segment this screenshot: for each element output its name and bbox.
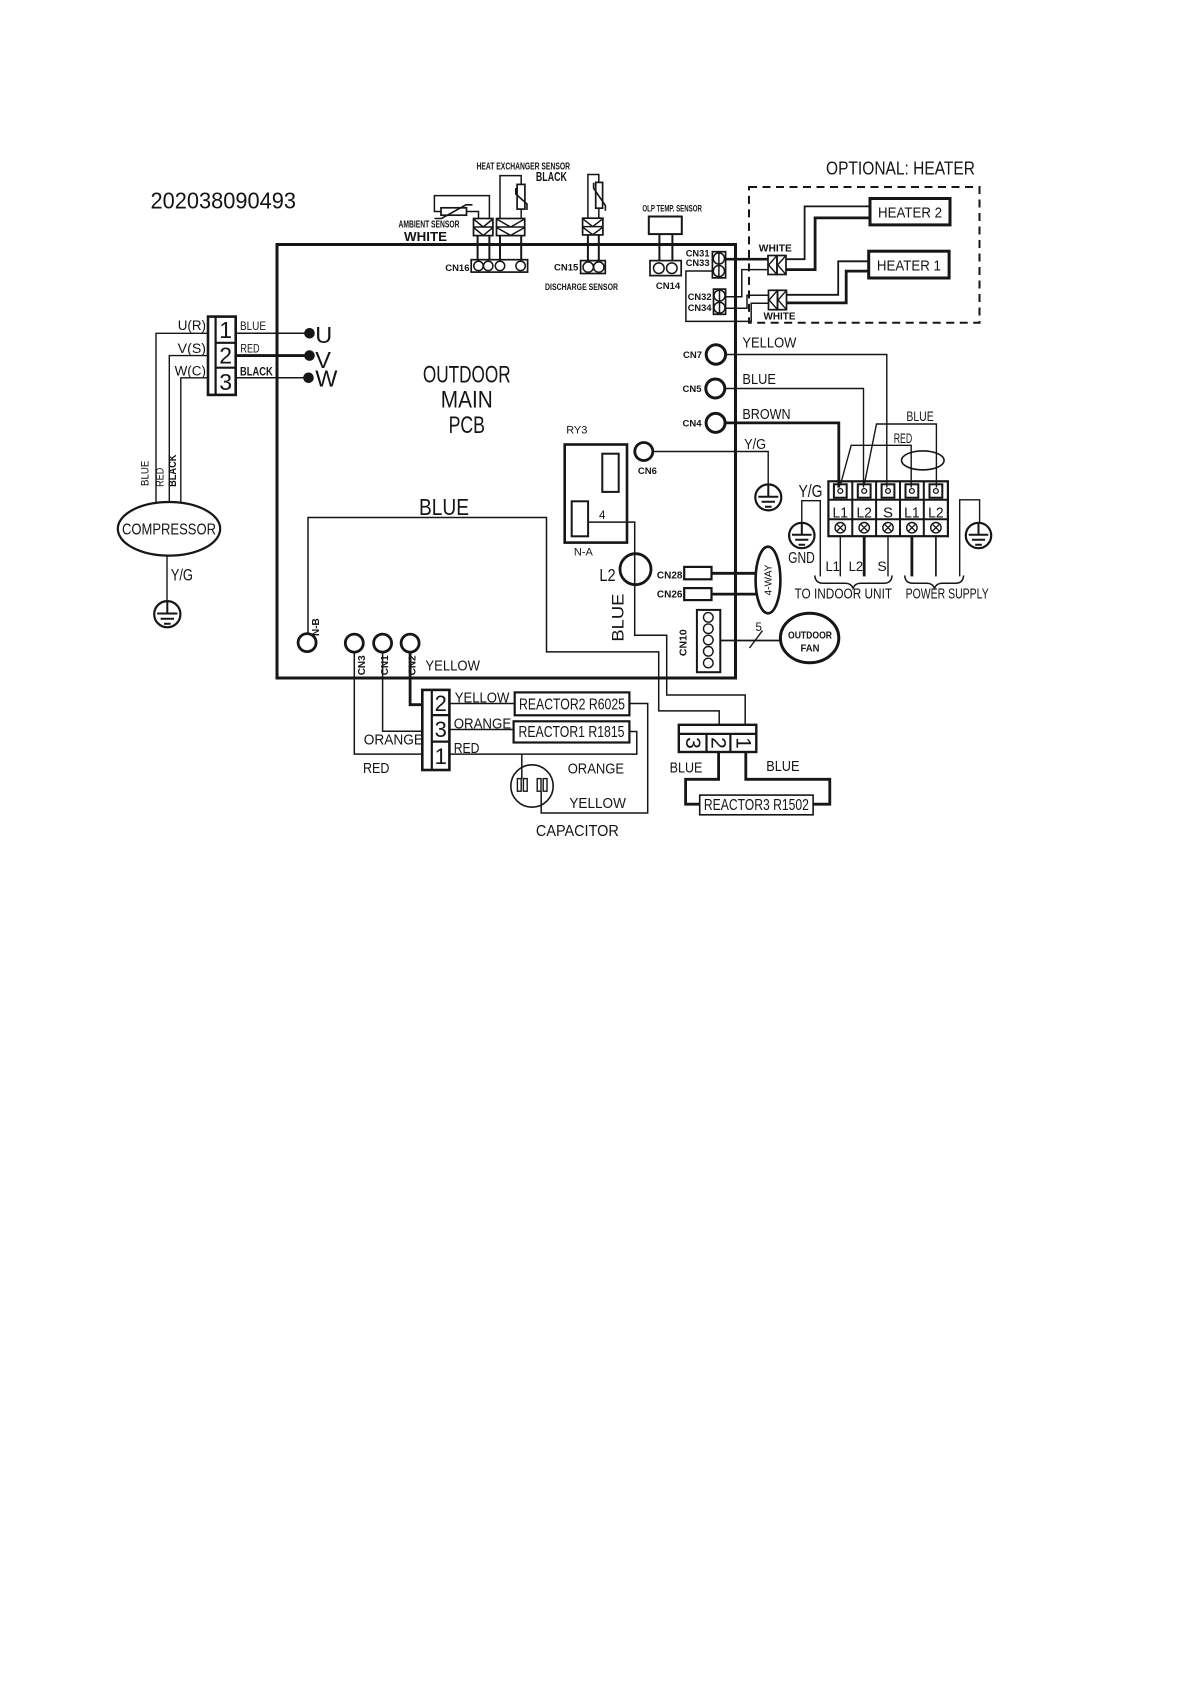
connector N-B xyxy=(298,634,316,652)
svg-text:BLUE: BLUE xyxy=(766,758,799,775)
svg-text:YELLOW: YELLOW xyxy=(569,795,626,812)
wire terminal2 to reactor3 left (thick) xyxy=(686,752,719,804)
svg-text:COMPRESSOR: COMPRESSOR xyxy=(122,521,216,538)
svg-text:1: 1 xyxy=(435,744,447,769)
PCB title text xyxy=(423,362,511,440)
svg-text:Y/G: Y/G xyxy=(744,436,766,453)
svg-text:L1: L1 xyxy=(825,558,840,574)
svg-text:OPTIONAL: HEATER: OPTIONAL: HEATER xyxy=(826,159,975,179)
svg-text:BLUE: BLUE xyxy=(609,594,628,642)
capacitor C1 xyxy=(511,765,553,807)
svg-text:REACTOR3 R1502: REACTOR3 R1502 xyxy=(704,797,809,814)
svg-text:N-B: N-B xyxy=(311,618,322,636)
svg-text:REACTOR2 R6025: REACTOR2 R6025 xyxy=(519,696,625,713)
wire CN34 to white connector 2 xyxy=(726,295,769,308)
REACTOR3 R1502 box xyxy=(700,795,813,815)
wire discharge to CN15 pin1 xyxy=(587,235,589,261)
svg-text:WHITE: WHITE xyxy=(764,311,796,323)
node W dot xyxy=(303,373,314,384)
svg-text:3: 3 xyxy=(681,737,704,749)
dashed optional-heater boundary xyxy=(749,187,980,323)
wire block to node V (thick) xyxy=(236,354,309,357)
wire Y/G to gnd and indoor xyxy=(802,501,821,577)
wire V(S) to compressor xyxy=(169,356,208,503)
svg-text:4: 4 xyxy=(599,510,606,522)
svg-text:MAIN: MAIN xyxy=(441,387,493,414)
svg-text:5: 5 xyxy=(756,622,762,634)
svg-text:CN10: CN10 xyxy=(677,629,689,656)
ground symbol GND xyxy=(789,523,814,548)
connector CN31/CN33 xyxy=(712,252,725,278)
4-WAY valve coil xyxy=(756,547,781,614)
svg-text:CN34: CN34 xyxy=(688,303,713,313)
connector block 1-2-3 xyxy=(208,317,236,395)
svg-text:Y/G: Y/G xyxy=(171,565,193,584)
svg-text:202038090493: 202038090493 xyxy=(151,188,297,214)
wire CN4 brown to terminal L1 (thick) xyxy=(725,423,839,488)
wire CN6 to ground xyxy=(653,452,768,485)
REACTOR1 R1815 box xyxy=(514,721,630,742)
svg-text:OLP TEMP. SENSOR: OLP TEMP. SENSOR xyxy=(642,203,702,213)
svg-text:CN16: CN16 xyxy=(445,263,469,274)
node V dot xyxy=(304,350,315,361)
wire BLUE net N-B to terminal 2 xyxy=(308,518,719,725)
white connector pair 1 xyxy=(768,256,786,275)
svg-text:ORANGE: ORANGE xyxy=(364,732,423,749)
brace power supply xyxy=(905,575,964,588)
svg-text:CN15: CN15 xyxy=(554,262,579,273)
svg-text:PCB: PCB xyxy=(449,412,485,439)
wire S down xyxy=(887,536,889,576)
wire CN3 to reactor terminal 1 xyxy=(354,652,422,754)
svg-text:CN33: CN33 xyxy=(686,258,710,268)
connector CN32/CN34 xyxy=(714,289,726,314)
svg-text:BROWN: BROWN xyxy=(742,406,790,423)
svg-text:2: 2 xyxy=(435,691,447,716)
wire CN26 to 4-way xyxy=(712,593,758,596)
wire CN33 loop to white connector 2 xyxy=(686,271,769,321)
HEATER 1 box xyxy=(869,251,949,278)
svg-text:CN5: CN5 xyxy=(682,384,702,395)
svg-text:TO INDOOR UNIT: TO INDOOR UNIT xyxy=(795,586,893,602)
wire reactor2 to capacitor right pin (yellow) xyxy=(541,704,648,814)
svg-text:RED: RED xyxy=(894,430,913,446)
cable loop ellipse xyxy=(902,451,945,470)
wire L1 indoor down xyxy=(839,536,841,576)
wire discharge bottom lead xyxy=(598,208,600,218)
ground symbol power supply xyxy=(966,523,991,548)
svg-text:1: 1 xyxy=(219,317,232,343)
svg-text:4-WAY: 4-WAY xyxy=(763,565,775,596)
svg-text:CN26: CN26 xyxy=(657,590,683,601)
connector pair heat exchanger (chevron box) xyxy=(497,219,525,236)
connector block 2-3-1 xyxy=(422,690,449,770)
wire white2 to heater1 upper xyxy=(787,261,869,295)
svg-text:CN32: CN32 xyxy=(688,292,712,302)
svg-text:REACTOR1 R1815: REACTOR1 R1815 xyxy=(519,724,625,741)
slash 5-wire mark xyxy=(750,631,763,649)
svg-text:FAN: FAN xyxy=(801,642,820,654)
svg-text:BLUE: BLUE xyxy=(240,321,266,333)
svg-text:BLACK: BLACK xyxy=(240,367,273,379)
svg-text:CN3: CN3 xyxy=(357,655,368,675)
svg-text:U(R): U(R) xyxy=(178,318,206,333)
svg-text:W(C): W(C) xyxy=(175,364,206,379)
svg-text:U: U xyxy=(315,322,332,348)
wire terminal1 to reactor3 right (thick) xyxy=(746,752,830,804)
OLP temp sensor body xyxy=(649,217,682,235)
svg-text:CN14: CN14 xyxy=(656,281,681,292)
svg-text:BLACK: BLACK xyxy=(536,169,567,184)
wire CN31 to white connector 1 xyxy=(726,258,768,261)
svg-text:YELLOW: YELLOW xyxy=(425,657,480,674)
wire terminal2 to reactor2 xyxy=(449,703,514,705)
wire W(C) to compressor xyxy=(181,378,208,504)
wire RY3 pin4 through coil to terminal 1 xyxy=(588,522,745,725)
wire CN7 yellow to terminal S xyxy=(726,355,887,488)
connector CN15 xyxy=(581,261,606,274)
svg-text:2: 2 xyxy=(219,343,232,369)
svg-text:DISCHARGE SENSOR: DISCHARGE SENSOR xyxy=(545,282,618,292)
terminal block TB1 xyxy=(828,481,948,536)
ground symbol CN6 Y/G xyxy=(755,484,781,510)
svg-text:HEATER 1: HEATER 1 xyxy=(877,258,941,275)
wire block to node U xyxy=(236,332,309,334)
svg-text:GND: GND xyxy=(788,550,815,567)
wire white1 to heater2 lower xyxy=(786,218,870,270)
wire discharge to CN15 pin2 xyxy=(598,235,600,261)
brace to indoor unit xyxy=(815,575,892,588)
connector CN5 xyxy=(706,379,725,398)
wire terminal1 red to capacitor junction xyxy=(449,732,636,755)
svg-text:L2: L2 xyxy=(856,504,872,521)
REACTOR2 R6025 box xyxy=(515,692,630,715)
connector CN6 xyxy=(635,443,653,461)
wire HE sensor to CN16 pin4 xyxy=(520,236,522,260)
wire junction down to capacitor left pin xyxy=(521,754,523,779)
wire ambient to CN16 pin1 xyxy=(477,236,479,260)
connector CN7 xyxy=(706,345,725,364)
connector CN1 xyxy=(374,634,392,652)
connector CN2 xyxy=(401,634,419,652)
svg-text:WHITE: WHITE xyxy=(404,229,447,244)
svg-text:CN7: CN7 xyxy=(683,350,702,361)
svg-text:CN4: CN4 xyxy=(682,418,702,429)
svg-text:S: S xyxy=(877,558,886,574)
svg-text:CAPACITOR: CAPACITOR xyxy=(536,823,619,840)
svg-text:RED: RED xyxy=(240,344,259,356)
terminal screw symbols xyxy=(835,523,941,533)
wire heat exchanger bottom lead xyxy=(520,209,522,218)
svg-text:1: 1 xyxy=(731,737,754,749)
svg-text:CN28: CN28 xyxy=(657,570,683,581)
wire L1 power down (thick) xyxy=(911,536,914,576)
wire L2 indoor down (thick) xyxy=(863,536,866,576)
wire ambient loop left xyxy=(434,196,489,219)
wire power earth to ground xyxy=(960,500,980,577)
wire CN1 to reactor terminal 3 xyxy=(383,652,423,731)
svg-text:RY3: RY3 xyxy=(566,425,587,437)
svg-text:POWER SUPPLY: POWER SUPPLY xyxy=(906,586,989,602)
svg-text:3: 3 xyxy=(219,369,232,395)
wire ambient to CN16 pin2 xyxy=(488,236,490,260)
svg-text:YELLOW: YELLOW xyxy=(742,335,797,352)
connector pair ambient (chevron box) xyxy=(474,219,493,236)
wire terminal3 to reactor1 xyxy=(449,729,513,731)
wire white1 to heater2 upper xyxy=(786,206,870,259)
relay RY3 xyxy=(565,445,627,543)
connector pair discharge (chevron box) xyxy=(583,218,603,235)
wire discharge loop xyxy=(588,175,599,219)
ambient sensor thermistor RT1 xyxy=(435,205,473,219)
svg-text:RED: RED xyxy=(155,468,167,487)
wire L2 power down xyxy=(935,536,937,576)
wire CN5 blue to terminal L2 xyxy=(725,389,864,488)
svg-text:BLUE: BLUE xyxy=(419,494,469,520)
wire CN32 to white connector 1 xyxy=(726,270,768,297)
svg-text:BLUE: BLUE xyxy=(906,408,933,424)
wire BLUE jumper L2power to L2indoor xyxy=(864,424,936,488)
svg-text:OUTDOOR: OUTDOOR xyxy=(423,362,511,389)
connector CN28 xyxy=(684,567,711,579)
svg-text:ORANGE: ORANGE xyxy=(568,760,624,777)
COMPRESSOR motor M1 xyxy=(118,502,220,556)
connector CN3 xyxy=(345,634,363,652)
svg-text:CN1: CN1 xyxy=(380,655,391,675)
HEATER 2 box xyxy=(870,199,950,225)
svg-text:BLUE: BLUE xyxy=(140,461,152,486)
wire OLP to CN14 pin2 xyxy=(671,234,673,261)
svg-text:BLUE: BLUE xyxy=(670,759,703,776)
svg-text:S: S xyxy=(883,504,893,521)
wire white2 to heater1 lower xyxy=(787,271,869,303)
svg-text:BLACK: BLACK xyxy=(167,454,179,486)
PCB U1 outline xyxy=(277,245,736,679)
ground symbol compressor xyxy=(154,601,180,627)
svg-text:2: 2 xyxy=(707,737,730,749)
svg-text:L1: L1 xyxy=(904,504,920,521)
connector CN10 xyxy=(697,610,720,672)
node U dot xyxy=(304,328,315,339)
wire ambient right lead xyxy=(467,212,479,219)
wire RED jumper L1power to L1indoor xyxy=(841,445,912,487)
wire OLP to CN14 pin1 xyxy=(658,234,660,261)
svg-text:L2: L2 xyxy=(599,565,615,585)
heat exchanger thermistor RT2 xyxy=(516,184,527,210)
svg-text:V(S): V(S) xyxy=(178,341,206,356)
wire U(R) to compressor xyxy=(156,333,208,503)
svg-text:3: 3 xyxy=(435,717,447,742)
svg-text:L1: L1 xyxy=(833,504,849,521)
svg-text:N-A: N-A xyxy=(574,547,594,559)
svg-text:Y/G: Y/G xyxy=(799,481,823,501)
connector CN4 xyxy=(706,413,725,432)
svg-text:W: W xyxy=(315,366,338,392)
OUTDOOR FAN motor xyxy=(780,613,838,662)
svg-text:WHITE: WHITE xyxy=(759,242,792,254)
svg-text:CN6: CN6 xyxy=(638,466,657,477)
wire compressor Y/G to ground xyxy=(166,556,168,602)
wire CN2 to reactor terminal 2 (thick) xyxy=(410,652,422,705)
svg-text:L2: L2 xyxy=(849,558,864,574)
connector CN16 xyxy=(471,260,527,272)
white connector pair 2 xyxy=(769,290,787,309)
connector CN26 xyxy=(684,588,711,600)
wire CN10 to outdoor fan xyxy=(720,640,780,642)
wire CN28 to 4-way xyxy=(712,572,758,575)
wire HE sensor to CN16 pin3 xyxy=(499,236,501,260)
discharge sensor thermistor RT3 xyxy=(594,182,606,210)
connector block 3-2-1 xyxy=(679,725,757,752)
svg-text:BLUE: BLUE xyxy=(742,371,776,388)
svg-text:HEATER 2: HEATER 2 xyxy=(878,205,942,222)
svg-text:OUTDOOR: OUTDOOR xyxy=(788,629,832,641)
svg-text:RED: RED xyxy=(363,760,390,777)
wire heat exchanger loop xyxy=(500,176,521,219)
wire block to node W xyxy=(236,377,309,379)
inductor coil L2 xyxy=(620,554,651,585)
connector CN14 xyxy=(650,261,681,276)
svg-text:L2: L2 xyxy=(928,504,944,521)
